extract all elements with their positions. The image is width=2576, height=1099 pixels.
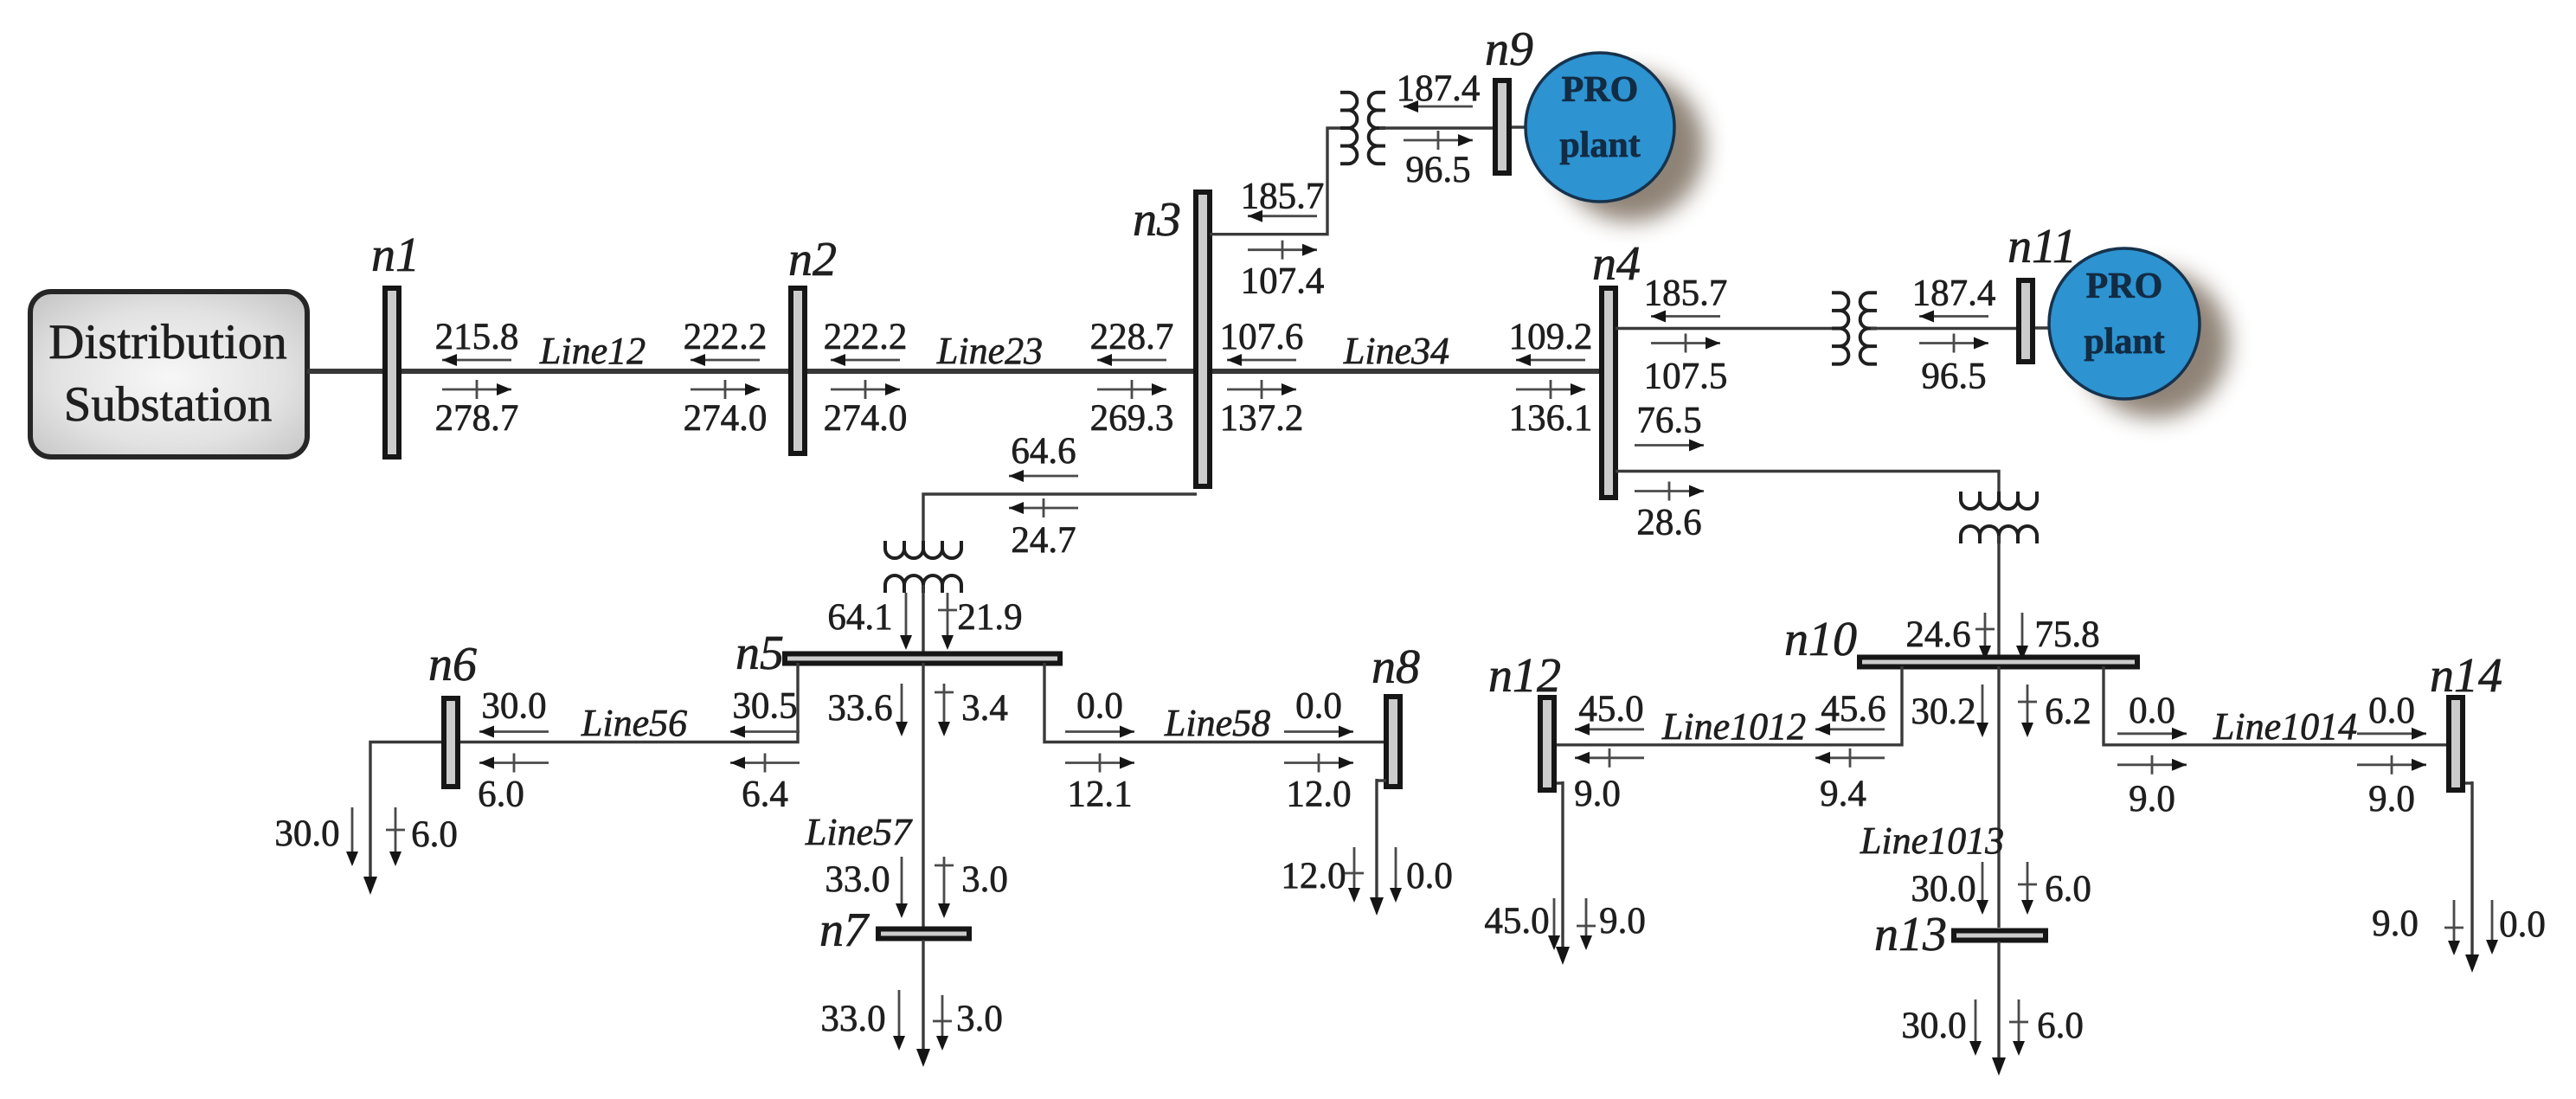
- svg-text:6.0: 6.0: [478, 774, 524, 815]
- svg-text:Line1012: Line1012: [1661, 705, 1806, 748]
- svg-text:n9: n9: [1485, 22, 1533, 76]
- svg-text:Line12: Line12: [539, 330, 646, 372]
- svg-text:28.6: 28.6: [1636, 503, 1701, 543]
- svg-text:107.6: 107.6: [1220, 317, 1304, 357]
- bus n1: [385, 288, 399, 457]
- svg-text:185.7: 185.7: [1241, 177, 1325, 217]
- svg-text:9.0: 9.0: [1599, 901, 1646, 942]
- bus n6: [444, 698, 458, 787]
- svg-text:n8: n8: [1372, 640, 1420, 694]
- svg-text:Line34: Line34: [1343, 330, 1449, 372]
- svg-text:187.4: 187.4: [1397, 68, 1481, 109]
- svg-text:21.9: 21.9: [957, 597, 1022, 638]
- svg-text:n13: n13: [1874, 908, 1947, 961]
- bus n11: [2019, 280, 2033, 362]
- wire transformer T39 to n9: [1379, 126, 1494, 129]
- wire n4 to transformer T410: [1616, 472, 1999, 500]
- svg-text:Line58: Line58: [1164, 702, 1270, 744]
- load feeder wire at n8: [1377, 779, 1386, 781]
- svg-text:30.0: 30.0: [481, 686, 546, 727]
- svg-text:30.0: 30.0: [274, 813, 339, 854]
- wire n4 to transformer T411: [1616, 327, 1838, 330]
- load feeder wire at n14: [2465, 781, 2472, 784]
- svg-text:278.7: 278.7: [435, 398, 519, 439]
- wire n10 to n13 (Line1013): [1997, 666, 2000, 928]
- svg-text:109.2: 109.2: [1509, 317, 1593, 357]
- PRO plant 1 shadow: [1556, 73, 1705, 222]
- load arrowhead at n6 feeder: [363, 877, 377, 895]
- PRO plant 1 generator circle: [1526, 53, 1674, 202]
- svg-text:3.0: 3.0: [956, 999, 1003, 1039]
- wire n5 to n6 (Line56) and n6 load feeder: [370, 663, 798, 879]
- svg-text:30.0: 30.0: [1901, 1006, 1966, 1046]
- svg-text:0.0: 0.0: [2499, 904, 2546, 945]
- svg-text:plant: plant: [1559, 125, 1640, 165]
- bus n9: [1495, 80, 1509, 173]
- wire transformer T411 to n11: [1871, 327, 2016, 330]
- svg-text:0.0: 0.0: [2368, 691, 2415, 731]
- load 0.0 arrow at n14: [2491, 900, 2494, 952]
- wire substation to n1 and trunk Line12/Line23/Line34: [307, 369, 1603, 374]
- svg-text:45.6: 45.6: [1821, 689, 1885, 729]
- svg-text:3.0: 3.0: [961, 859, 1008, 900]
- svg-text:Line1013: Line1013: [1860, 819, 2004, 862]
- svg-text:9.0: 9.0: [2368, 779, 2415, 819]
- svg-text:n12: n12: [1488, 649, 1561, 703]
- svg-text:12.0: 12.0: [1281, 856, 1346, 897]
- bus n13: [1954, 931, 2046, 941]
- svg-text:0.0: 0.0: [1406, 856, 1453, 897]
- bus n12: [1540, 697, 1554, 790]
- svg-text:PRO: PRO: [2086, 267, 2163, 306]
- svg-text:274.0: 274.0: [824, 398, 908, 439]
- svg-text:n4: n4: [1592, 237, 1641, 291]
- wire n5 to n8 (Line58): [1044, 663, 1384, 742]
- wire n9 to PRO plant 1: [1512, 125, 1528, 128]
- svg-text:222.2: 222.2: [684, 317, 768, 357]
- svg-text:228.7: 228.7: [1090, 317, 1174, 357]
- flow 75.8 down-arrow above n10: [2021, 613, 2024, 658]
- load feeder wire at n12: [1557, 781, 1563, 784]
- svg-text:136.1: 136.1: [1509, 398, 1593, 439]
- PRO plant 2 generator circle: [2049, 248, 2200, 399]
- svg-text:107.5: 107.5: [1644, 357, 1728, 397]
- svg-text:30.5: 30.5: [732, 686, 797, 727]
- svg-text:n14: n14: [2430, 649, 2502, 703]
- flow 21.9 down-arrow above n5: [947, 593, 949, 647]
- svg-text:n3: n3: [1133, 193, 1181, 247]
- wire n3 to transformer T39: [1210, 128, 1346, 235]
- svg-text:96.5: 96.5: [1405, 150, 1470, 190]
- svg-text:n11: n11: [2007, 220, 2077, 273]
- wire transformer T410 to n10: [1997, 536, 2000, 655]
- svg-text:9.0: 9.0: [2372, 903, 2419, 944]
- svg-text:215.8: 215.8: [435, 317, 519, 357]
- svg-text:PRO: PRO: [1562, 70, 1639, 110]
- svg-text:30.0: 30.0: [1911, 869, 1975, 909]
- svg-text:Line1014: Line1014: [2213, 705, 2357, 748]
- load 6.0 arrow at n13: [2018, 999, 2020, 1053]
- svg-text:plant: plant: [2084, 322, 2164, 362]
- load 6.0 arrow at n6: [395, 807, 397, 864]
- svg-text:269.3: 269.3: [1090, 398, 1174, 439]
- wire n3 to transformer T35: [923, 494, 1197, 549]
- wire transformer T35 to n5: [922, 585, 924, 653]
- bus n3: [1196, 192, 1210, 486]
- svg-text:137.2: 137.2: [1220, 398, 1304, 439]
- svg-text:0.0: 0.0: [1295, 686, 1342, 727]
- PRO plant 2 shadow: [2080, 269, 2229, 418]
- svg-text:6.4: 6.4: [742, 774, 788, 815]
- svg-text:Line56: Line56: [581, 702, 687, 744]
- load feeder wire at n13: [1997, 942, 2000, 1070]
- distribution substation box: [30, 292, 307, 457]
- transformer T35 (n3-n5): [885, 549, 961, 558]
- transformer T411 (n4-n11): [1840, 292, 1848, 363]
- load 9.0 arrow at n12: [1585, 898, 1588, 948]
- bus n10: [1860, 658, 2137, 667]
- svg-text:33.0: 33.0: [820, 999, 885, 1039]
- svg-text:75.8: 75.8: [2034, 614, 2099, 655]
- load 3.0 arrow at n7: [941, 995, 944, 1048]
- load 0.0 arrow at n8: [1395, 847, 1397, 900]
- load feeder wire at n7: [922, 940, 924, 1062]
- svg-text:64.6: 64.6: [1011, 431, 1076, 472]
- wire n10 to n14 (Line1014): [2104, 666, 2447, 745]
- svg-text:9.0: 9.0: [2129, 779, 2175, 819]
- transformer T410 (n4-n10): [1961, 499, 2037, 509]
- svg-text:0.0: 0.0: [1076, 686, 1123, 727]
- svg-text:64.1: 64.1: [827, 597, 892, 638]
- svg-text:n2: n2: [788, 233, 837, 286]
- svg-text:33.0: 33.0: [825, 859, 890, 900]
- bus n14: [2449, 697, 2463, 790]
- svg-text:45.0: 45.0: [1578, 689, 1643, 729]
- svg-text:30.2: 30.2: [1911, 691, 1975, 732]
- svg-text:76.5: 76.5: [1636, 401, 1701, 441]
- bus n4: [1602, 288, 1616, 498]
- bus n7: [878, 929, 969, 939]
- svg-text:n1: n1: [371, 228, 420, 282]
- svg-text:n5: n5: [736, 627, 784, 680]
- svg-text:Line23: Line23: [936, 330, 1043, 372]
- svg-text:n10: n10: [1784, 613, 1857, 666]
- transformer T39 (n3-n9): [1348, 93, 1357, 164]
- bus n2: [791, 288, 805, 453]
- svg-text:n7: n7: [819, 903, 870, 957]
- svg-text:33.6: 33.6: [827, 688, 892, 729]
- svg-text:24.7: 24.7: [1011, 520, 1076, 561]
- svg-text:0.0: 0.0: [2129, 691, 2175, 731]
- svg-text:Distribution: Distribution: [48, 315, 287, 370]
- svg-text:187.4: 187.4: [1912, 273, 1996, 314]
- svg-text:222.2: 222.2: [824, 317, 908, 357]
- wire n5 to n7 (Line57): [922, 663, 924, 928]
- bus n8: [1386, 697, 1400, 787]
- svg-text:9.4: 9.4: [1820, 774, 1866, 814]
- svg-text:12.0: 12.0: [1286, 774, 1351, 815]
- svg-text:24.6: 24.6: [1905, 614, 1970, 655]
- wire n11 to PRO plant 2: [2035, 326, 2051, 329]
- svg-text:Substation: Substation: [64, 377, 273, 432]
- bus n5: [785, 654, 1060, 664]
- svg-text:Line57: Line57: [805, 811, 913, 853]
- svg-text:274.0: 274.0: [684, 398, 768, 439]
- svg-text:45.0: 45.0: [1484, 901, 1549, 942]
- svg-text:n6: n6: [428, 638, 477, 691]
- svg-text:107.4: 107.4: [1241, 261, 1325, 302]
- svg-text:96.5: 96.5: [1921, 357, 1986, 397]
- wire n10 to n12 (Line1012): [1556, 666, 1902, 745]
- svg-text:12.1: 12.1: [1067, 774, 1132, 815]
- svg-text:9.0: 9.0: [1574, 774, 1621, 814]
- svg-text:185.7: 185.7: [1644, 273, 1728, 314]
- svg-text:6.0: 6.0: [411, 814, 458, 855]
- svg-text:6.0: 6.0: [2045, 869, 2091, 909]
- svg-text:3.4: 3.4: [961, 688, 1008, 729]
- svg-text:6.2: 6.2: [2045, 691, 2091, 732]
- svg-text:6.0: 6.0: [2037, 1006, 2084, 1046]
